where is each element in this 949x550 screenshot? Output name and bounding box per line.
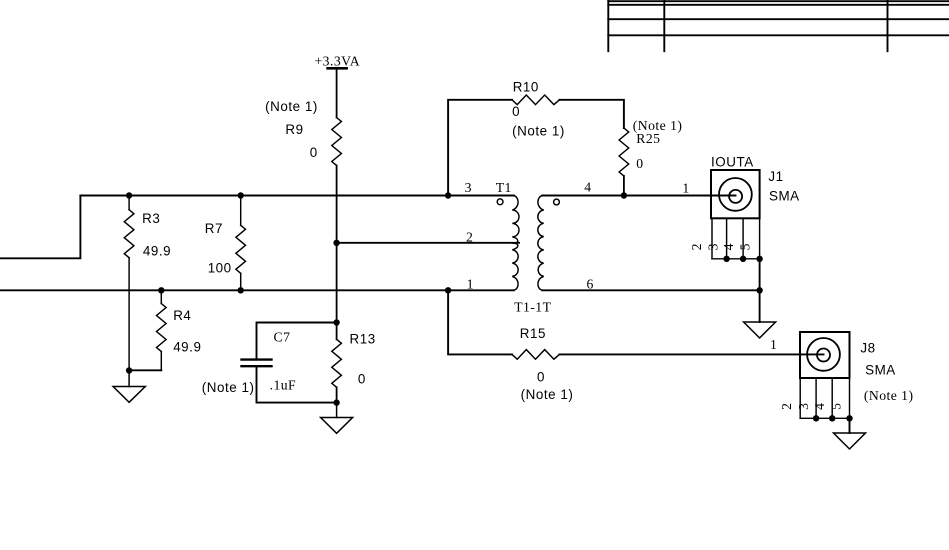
- svg-text:(Note 1): (Note 1): [521, 387, 574, 402]
- svg-text:1: 1: [467, 276, 474, 291]
- junction net A / R7: [238, 192, 244, 198]
- J1 ground legs pins 2-5: [712, 218, 760, 258]
- resistor R9: [332, 118, 342, 166]
- T1 primary phase dot: [497, 199, 503, 205]
- svg-text:0: 0: [537, 370, 545, 385]
- svg-text:J8: J8: [860, 341, 875, 356]
- svg-text:.1uF: .1uF: [270, 378, 297, 393]
- svg-text:R3: R3: [142, 211, 160, 226]
- resistor R4: [157, 290, 167, 370]
- svg-text:3: 3: [465, 180, 472, 195]
- resistor R7: [236, 196, 246, 291]
- resistor R25: [619, 128, 629, 176]
- svg-text:4: 4: [584, 180, 591, 195]
- wire R15 to J8 pin 1: [560, 353, 824, 355]
- svg-text:4: 4: [721, 243, 736, 250]
- junction R13 top / C7: [333, 319, 339, 325]
- J1 outer ring: [719, 178, 752, 211]
- svg-text:R15: R15: [520, 326, 546, 341]
- junction J1 pin 5 leg: [756, 256, 762, 262]
- ground (J1): [744, 322, 776, 338]
- svg-text:1: 1: [770, 337, 777, 352]
- svg-text:IOUTA: IOUTA: [711, 155, 754, 170]
- svg-text:49.9: 49.9: [173, 340, 201, 355]
- svg-text:(Note 1): (Note 1): [202, 380, 255, 395]
- connector J1 SMA body: [711, 170, 760, 218]
- svg-text:4: 4: [812, 403, 827, 410]
- T1 secondary phase dot: [554, 199, 560, 205]
- transformer T1 secondary winding: [538, 196, 544, 291]
- wire net A junction up to R10: [448, 100, 512, 196]
- power symbol +3.3VA: [328, 67, 347, 70]
- wire T1 pin 6 to J1 ground net: [542, 289, 759, 291]
- svg-text:(Note 1): (Note 1): [864, 388, 914, 404]
- wire net B (T1 pin 2): [337, 242, 519, 244]
- svg-text:100: 100: [208, 260, 232, 275]
- svg-text:C7: C7: [274, 329, 291, 344]
- junction J1 pin 4 leg: [740, 256, 746, 262]
- wire: left input to net A (corner): [0, 196, 80, 259]
- svg-text:T1-1T: T1-1T: [514, 300, 551, 315]
- junction J8 pin 3 leg: [813, 415, 819, 421]
- transformer T1 primary winding: [512, 196, 519, 244]
- svg-text:R10: R10: [513, 80, 539, 95]
- junction T1 pin 6 / J1 ground: [756, 287, 762, 293]
- wire J1 legs to ground: [759, 259, 761, 322]
- svg-text:0: 0: [310, 145, 318, 160]
- junction J8 pin 5 leg: [846, 415, 852, 421]
- revision table fragment (top right): [608, 0, 949, 51]
- svg-text:SMA: SMA: [865, 363, 896, 378]
- wire C7 top branch: [257, 323, 337, 359]
- svg-text:1: 1: [682, 181, 689, 196]
- J8 ground legs pins 2-5: [800, 378, 849, 418]
- wire net A (R3/R7/T1 pin 3 rail): [80, 195, 513, 197]
- svg-text:SMA: SMA: [769, 188, 800, 203]
- svg-text:6: 6: [587, 276, 594, 291]
- ground (R3/R4): [113, 371, 145, 403]
- wire T1 pin 4 to J1 pin 1: [542, 195, 735, 197]
- J8 center pin circle: [817, 349, 830, 362]
- junction net C / R7: [238, 287, 244, 293]
- connector J8 SMA body: [800, 332, 850, 378]
- junction net C / R15 branch: [445, 287, 451, 293]
- resistor R3: [124, 196, 134, 371]
- resistor R15: [512, 350, 560, 360]
- wire +3.3VA to R9: [336, 68, 338, 117]
- capacitor C7: [242, 360, 272, 367]
- wire R13 bottom lead: [336, 387, 338, 402]
- svg-text:3: 3: [796, 403, 811, 410]
- junction R25 / J1 pin 1 wire: [621, 192, 627, 198]
- wire C7 bottom branch: [257, 368, 337, 403]
- svg-text:0: 0: [636, 156, 643, 171]
- wire net C junction down to R15: [448, 290, 512, 354]
- svg-text:3: 3: [706, 243, 721, 250]
- svg-text:5: 5: [829, 403, 844, 410]
- wire R4 bottom to ground junction: [129, 369, 161, 371]
- junction R3/R4 ground node: [126, 367, 132, 373]
- wire R25 bottom lead: [623, 176, 625, 196]
- svg-text:0: 0: [512, 104, 520, 119]
- resistor R10: [512, 95, 560, 105]
- wire R9 to R13 (crosses nets A and C): [336, 166, 338, 340]
- svg-text:2: 2: [689, 243, 704, 250]
- svg-text:R9: R9: [285, 122, 303, 137]
- wire net C (T1 pin 1 rail): [0, 289, 514, 291]
- resistor R13: [332, 339, 342, 387]
- svg-text:J1: J1: [768, 169, 783, 184]
- svg-text:49.9: 49.9: [143, 243, 171, 258]
- svg-text:R13: R13: [350, 332, 376, 347]
- junction J1 pin 3 leg: [723, 256, 729, 262]
- ground (J8): [834, 433, 866, 449]
- svg-text:R25: R25: [636, 131, 660, 146]
- junction net B / R9-R13 line: [333, 240, 339, 246]
- svg-text:(Note 1): (Note 1): [512, 123, 565, 138]
- ground (R13/C7): [321, 403, 353, 434]
- wire J8 legs to ground: [849, 418, 851, 433]
- junction net A / R10 branch: [445, 192, 451, 198]
- svg-text:0: 0: [358, 372, 366, 387]
- svg-text:T1: T1: [496, 180, 512, 195]
- svg-text:2: 2: [779, 403, 794, 410]
- J8 outer ring: [807, 338, 840, 371]
- svg-text:(Note 1): (Note 1): [265, 99, 318, 114]
- wire R10 to R25: [560, 100, 624, 128]
- svg-text:R4: R4: [173, 308, 191, 323]
- svg-text:2: 2: [466, 230, 473, 245]
- svg-text:5: 5: [738, 243, 753, 250]
- junction J8 pin 4 leg: [829, 415, 835, 421]
- junction net A / R3: [126, 192, 132, 198]
- junction R13 bottom / C7: [333, 399, 339, 405]
- svg-text:+3.3VA: +3.3VA: [315, 53, 361, 68]
- J1 center pin circle: [729, 190, 742, 203]
- svg-text:R7: R7: [205, 221, 223, 236]
- junction net C / R4: [158, 287, 164, 293]
